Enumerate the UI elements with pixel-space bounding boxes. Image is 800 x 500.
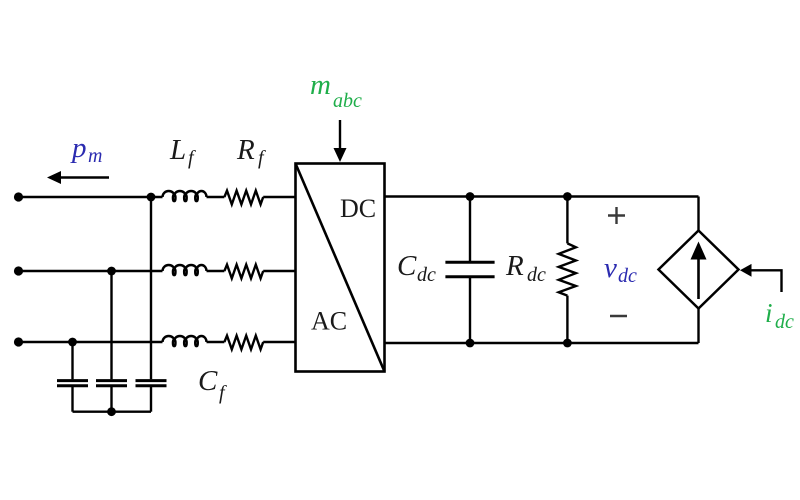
wire vertical drop phase A xyxy=(150,197,152,379)
junction Cdc top xyxy=(466,192,475,201)
junction phase B to filter cap xyxy=(107,267,116,276)
arrow pm direction xyxy=(47,171,109,184)
capacitor Cdc xyxy=(445,197,494,344)
capacitor Cf phase C xyxy=(57,381,88,386)
wire phase A horizontal xyxy=(19,196,296,198)
wire cap C to star bus xyxy=(71,387,73,412)
resistor Rf phase A xyxy=(224,191,263,205)
wire phase B horizontal xyxy=(19,270,296,272)
resistor Rf phase C xyxy=(224,336,263,350)
svg-text:AC: AC xyxy=(311,307,347,336)
resistor Rf phase B xyxy=(224,265,263,279)
svg-text:dc: dc xyxy=(417,264,436,286)
svg-text:i: i xyxy=(765,298,773,328)
wire DC bus bottom xyxy=(385,342,699,344)
arrow idc control xyxy=(740,264,782,292)
inductor Lf phase B xyxy=(163,265,207,275)
svg-text:L: L xyxy=(169,134,186,166)
svg-text:m: m xyxy=(88,145,102,167)
svg-text:m: m xyxy=(310,69,331,101)
svg-text:DC: DC xyxy=(340,194,376,223)
junction phase C to filter cap xyxy=(68,338,77,347)
svg-text:dc: dc xyxy=(775,311,794,333)
svg-text:R: R xyxy=(505,250,524,282)
svg-text:C: C xyxy=(397,250,417,282)
wire vertical drop phase C xyxy=(71,342,73,379)
svg-text:dc: dc xyxy=(527,264,546,286)
dependent current source I1 diamond xyxy=(659,231,739,309)
wire star bus xyxy=(73,411,152,413)
junction phase A to filter cap xyxy=(147,193,156,202)
wire right leg bottom xyxy=(697,309,699,344)
label plus xyxy=(608,207,625,224)
svg-text:dc: dc xyxy=(618,265,637,287)
svg-text:v: v xyxy=(604,252,617,284)
svg-text:R: R xyxy=(236,134,255,166)
wire DC bus top xyxy=(385,195,699,197)
node terminal phase A xyxy=(14,192,23,201)
capacitor Cf phase B xyxy=(96,381,127,386)
junction Cdc bottom xyxy=(466,339,475,348)
wire phase C horizontal xyxy=(19,341,296,343)
junction Rdc bottom xyxy=(563,339,572,348)
converter box U1 xyxy=(296,164,385,372)
converter diagonal xyxy=(296,164,385,372)
label minus xyxy=(610,315,627,317)
junction Rdc top xyxy=(563,192,572,201)
node terminal phase C xyxy=(14,337,23,346)
wire right leg top xyxy=(697,197,699,231)
arrow inside source xyxy=(691,242,707,300)
svg-text:C: C xyxy=(198,365,218,397)
wire cap A to star bus xyxy=(150,387,152,412)
wire vertical drop phase B xyxy=(110,271,112,379)
resistor Rdc xyxy=(559,197,576,344)
node terminal phase B xyxy=(14,266,23,275)
svg-text:p: p xyxy=(70,132,87,164)
arrow m_abc into converter xyxy=(334,120,347,162)
junction star point xyxy=(107,407,116,416)
wire cap B to star bus xyxy=(110,387,112,412)
capacitor Cf phase A xyxy=(136,381,167,386)
inductor Lf phase C xyxy=(163,336,207,346)
svg-text:abc: abc xyxy=(333,90,362,112)
inductor Lf phase A xyxy=(163,191,207,201)
